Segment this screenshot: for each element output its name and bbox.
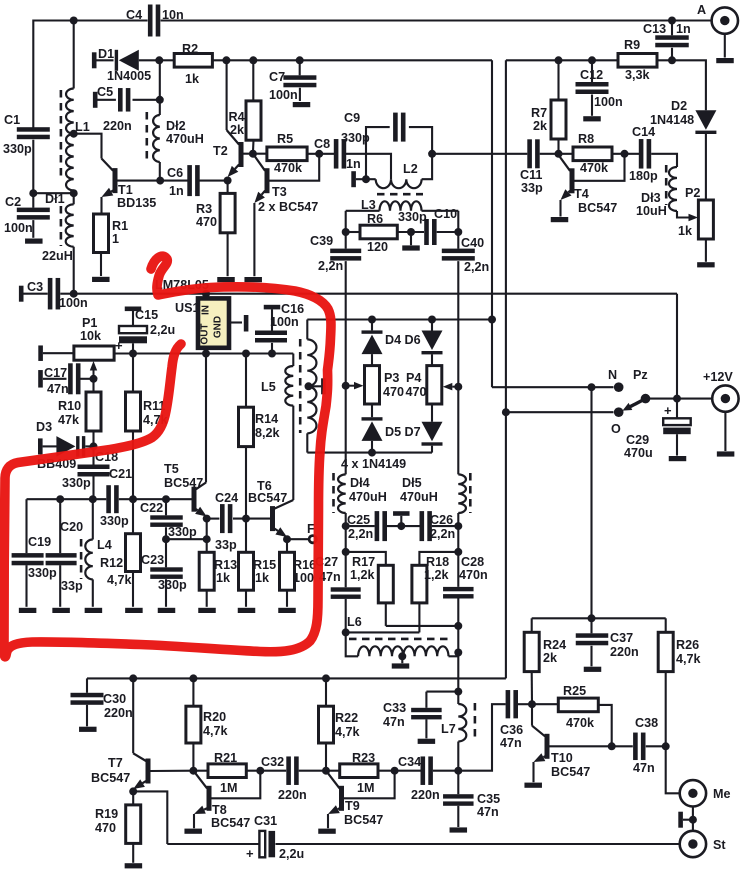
transistor T7 BC547 [91,753,151,789]
svg-text:330p: 330p [62,476,91,490]
junction bottom rail / R20 [189,674,197,682]
resistor R22 [319,678,361,770]
svg-text:C13: C13 [643,22,666,36]
svg-text:470k: 470k [580,161,609,175]
inductor L7 on rail B [441,692,466,771]
svg-text:33p: 33p [215,538,237,552]
inductor Dl5 470uH on rail B [400,474,466,513]
transistor T6 BC547 [248,479,293,537]
capacitor C9 branch [341,111,432,179]
junction R2 wire / C7 [296,56,304,64]
svg-text:100n: 100n [594,95,623,109]
svg-text:R1: R1 [112,219,128,233]
svg-text:47n: 47n [47,382,69,396]
svg-text:33p: 33p [61,579,83,593]
svg-text:L2: L2 [403,162,418,176]
svg-text:C23: C23 [141,553,164,567]
svg-text:2,2u: 2,2u [279,847,304,861]
capacitor C30 [71,678,133,726]
svg-text:C36: C36 [500,723,523,737]
junction C22/C23/R13 wire [162,535,211,543]
svg-text:C26: C26 [430,513,453,527]
capacitor C18 [62,446,118,499]
svg-text:C12: C12 [580,68,603,82]
svg-text:1N4148: 1N4148 [650,113,694,127]
wire y60 right segment from corner x506 to D2 corner [506,59,672,61]
ground below C29 [669,456,687,461]
ground below T10 [524,783,542,788]
svg-text:C32: C32 [261,755,284,769]
svg-text:O: O [611,422,621,436]
core dash line Dl1 [60,206,63,246]
connector jack St [680,831,727,857]
junction Dl1 bottom / supply wire [70,290,78,298]
core dash L7 [474,703,477,741]
core dash line L1 [60,90,63,178]
svg-text:BC547: BC547 [164,476,203,490]
wiper arrow into P1 [90,361,98,383]
junction C1/C2 node [29,189,77,197]
switch contact O [611,407,624,436]
junction ring bottom / D5 [368,449,376,457]
svg-text:4 x 1N4149: 4 x 1N4149 [341,457,406,471]
svg-text:Pz: Pz [633,368,648,382]
svg-text:D4: D4 [385,333,401,347]
svg-text:L3: L3 [361,198,376,212]
svg-text:120: 120 [367,240,388,254]
junction rail B / C26 [454,522,462,530]
resistor R14 [239,350,281,519]
ground below C12 [583,116,601,121]
junction rail B / C34 / audio takeoff / C35 [454,767,462,775]
ground below R3 [217,277,235,282]
bottom wire [167,843,679,845]
resistor R16 [280,539,317,607]
resistor R26 4,7k [658,618,701,745]
svg-text:C8: C8 [314,137,330,151]
svg-text:100n: 100n [269,88,298,102]
svg-text:+: + [664,403,672,418]
bottom supply rail [87,677,506,679]
ground below T9 [318,829,336,834]
wiper arrow into P3 [342,382,364,390]
junction R2 wire / R4 [249,56,257,64]
junction bus/C18/L4 [89,495,97,503]
diode D6 [405,320,443,366]
diode ring top wire [307,318,492,320]
connector jack Me [680,780,731,806]
inductor Dl4 470uH on rail A [338,474,387,513]
svg-text:1n: 1n [169,184,184,198]
transistor T10 BC547 [532,704,590,779]
svg-text:Me: Me [713,787,731,801]
inductor Dl1 22uH [42,192,74,294]
svg-text:2,2u: 2,2u [150,323,175,337]
capacitor C38 [612,716,666,775]
svg-text:P4: P4 [406,371,421,385]
capacitor C2 [4,195,50,238]
terminal bar left of P1 [38,345,74,361]
svg-text:47n: 47n [477,805,499,819]
wire L6 top link [346,631,420,633]
rail x492 from y60 down to N wire [491,60,493,387]
svg-text:470: 470 [196,215,217,229]
svg-text:470u: 470u [624,446,653,460]
svg-text:R23: R23 [352,751,375,765]
wire D2 branch from y60 [672,60,706,110]
rail x506 from y60 down to bottom rail [505,60,507,678]
terminal bar left of C5 [93,92,116,108]
resistor R12 [100,499,141,607]
inductor Dl3 10uH [636,167,683,218]
ground below R12 [125,608,142,613]
wire supply riser from US1 wire [676,294,678,399]
inductor L3 [346,198,459,212]
svg-text:1,2k: 1,2k [424,568,450,582]
svg-text:C15: C15 [135,308,158,322]
svg-text:4,7k: 4,7k [676,652,702,666]
resistor R11 [126,354,169,500]
svg-text:R19: R19 [95,807,118,821]
svg-text:470: 470 [95,821,116,835]
svg-text:47n: 47n [633,761,655,775]
svg-text:3,3k: 3,3k [625,68,651,82]
capacitor C17 [38,363,93,396]
wire T4 emitter to ground [559,200,561,217]
varicap diode D3 BB409 [36,420,94,471]
resistor R21 1M [193,751,286,795]
resistor R5 [267,132,307,175]
capacitor C14 [629,125,677,183]
svg-text:2k: 2k [230,123,245,137]
capacitor C27 on rail A [315,555,361,632]
core dash Dl4 [332,473,335,513]
svg-text:470uH: 470uH [400,490,438,504]
inductor L1 with tap [66,21,90,205]
wire T2 collector up to R2 junction [226,60,228,130]
wire emitter to bottom wire corner [133,791,167,844]
svg-text:1k: 1k [255,571,270,585]
red marker annotation loop [4,256,331,657]
svg-text:R5: R5 [277,132,293,146]
capacitor C21 in bus [100,467,132,528]
wire T10 emitter to ground [532,762,534,782]
regulated rail y353 [114,352,293,354]
svg-text:C11: C11 [520,168,542,182]
svg-text:D1: D1 [98,47,114,61]
wire y60 D1 junction to R2 [159,59,174,61]
capacitor C24 [207,491,270,552]
svg-text:OUT: OUT [200,323,211,344]
svg-text:47n: 47n [383,715,405,729]
wire emitter node down to R13 junction [206,519,208,540]
voltage regulator US1 LM78L05 [155,278,229,348]
ground below P2 [697,262,715,267]
wire N feed [492,386,614,388]
svg-text:2,2n: 2,2n [464,260,489,274]
US1 GND stub and terminal [229,315,248,332]
svg-text:D7: D7 [405,425,421,439]
svg-text:R15: R15 [253,558,276,572]
capacitor C39 on rail A [310,234,361,386]
svg-text:D3: D3 [36,420,52,434]
svg-text:1n: 1n [676,22,691,36]
terminal bar left of D3 [38,438,57,454]
wire T8 base to riser [212,771,261,799]
resistor R23 1M [326,751,421,795]
svg-text:2 x BC547: 2 x BC547 [258,200,318,214]
svg-text:C40: C40 [461,236,484,250]
svg-text:C21: C21 [109,467,132,481]
wire T7 collector [132,678,134,753]
wire R17/R18 bottoms to rail B [386,625,459,627]
junction C15/R11 on rail [129,350,137,358]
svg-text:R10: R10 [58,399,81,413]
svg-text:330p: 330p [158,578,187,592]
inductor L6 with center tap [346,615,459,656]
svg-text:BC547: BC547 [551,765,590,779]
ground below T4 [551,217,569,222]
wire T3 base to R5/C8 node [270,154,320,181]
svg-text:C31: C31 [254,814,277,828]
svg-text:BC547: BC547 [211,816,250,830]
svg-text:100n: 100n [59,296,88,310]
junction rail B / L6 right [454,649,462,657]
svg-text:N: N [608,368,617,382]
wire y60 R2 to corner x492 [212,59,492,61]
svg-text:220n: 220n [278,788,307,802]
wire T4 base to R8 right junction [575,154,625,181]
capacitor C11 on RF wire [520,139,543,195]
transistor T3 BC547 [253,154,318,214]
svg-text:L7: L7 [441,722,456,736]
svg-text:BC547: BC547 [578,201,617,215]
junction rail B / R17R18 bottom wire [454,622,462,630]
transistor T1 BD135 [102,159,157,211]
svg-text:C25: C25 [347,513,370,527]
junction R21/C32/T8 base riser [256,767,264,775]
capacitor C35 [443,771,500,827]
svg-text:R6: R6 [367,212,383,226]
svg-text:T8: T8 [212,803,227,817]
wire T7 base to R20 node [151,770,194,772]
svg-text:L6: L6 [347,615,362,629]
svg-text:C16: C16 [281,302,304,316]
junction ring top / rail x492 [488,316,496,324]
svg-text:C28: C28 [461,555,484,569]
potentiometer P2 1k [678,186,713,262]
svg-text:47n: 47n [500,736,522,750]
junction bottom rail / T7 collector [129,674,137,682]
electrolytic C29 470u [624,399,691,460]
transistor T8 BC547 [193,771,250,830]
ground below C19 [19,608,36,613]
junction bus/R11/R12 [129,495,137,503]
ground below R15 [238,608,256,613]
svg-text:33p: 33p [521,181,543,195]
svg-text:C7: C7 [269,70,285,84]
core dash L6 [349,638,448,641]
svg-text:BD135: BD135 [117,196,156,210]
svg-text:330p: 330p [168,525,197,539]
wire T8 emitter to ground [193,814,195,828]
junction ring top / D6 [428,316,436,324]
svg-text:C30: C30 [103,692,126,706]
US1 OUT pin to rail [202,348,210,358]
svg-text:D5: D5 [385,425,401,439]
wire T5 collector to regulated rail [205,354,207,483]
rail B through bottom rail crossing to L7 [457,626,459,692]
svg-text:10n: 10n [162,8,184,22]
resistor R8 [573,132,639,175]
svg-text:470uH: 470uH [349,490,387,504]
svg-text:T2: T2 [213,144,228,158]
ground below C37 [584,667,602,672]
svg-text:R16: R16 [293,558,316,572]
capacitor C28 on rail B [443,555,488,626]
inductor L4 [85,499,111,607]
potentiometer P4 470 [406,366,442,404]
audio wire to C36 [458,704,505,771]
oscillator bus wire [27,498,192,500]
resistor R25 470k [532,684,612,746]
junction US1 IN pin [202,290,210,299]
resistor R4 [229,60,262,153]
capacitor C13 [643,21,691,61]
svg-text:1,2k: 1,2k [350,568,376,582]
svg-text:+12V: +12V [703,370,733,384]
svg-text:10uH: 10uH [636,204,667,218]
core dash Dl2 [146,112,149,160]
capacitor C34 [398,755,458,802]
resistor R18 1,2k [412,552,458,633]
capacitor C12 [576,60,623,116]
ground below jack A [716,58,734,63]
junction rail B / R18 wire [454,548,462,556]
svg-text:C38: C38 [635,716,658,730]
wire T9 base to riser [344,771,395,799]
svg-text:Dł2: Dł2 [166,119,186,133]
svg-text:R2: R2 [182,42,198,56]
wire T1 collector to L1 tap [74,134,102,159]
svg-text:R3: R3 [196,202,212,216]
junction D3/R10/C18 [90,442,98,450]
svg-text:470uH: 470uH [166,132,204,146]
svg-text:470: 470 [383,385,404,399]
link Me to St with terminal [678,807,697,831]
junction rail A / C25 [342,522,350,530]
junction R20/R21/T7 base/T8 collector [189,767,197,775]
svg-text:R13: R13 [214,558,237,572]
svg-text:C6: C6 [167,166,183,180]
label 4 x 1N4149 [341,457,406,471]
ground below C30 [79,727,97,732]
svg-text:4,7k: 4,7k [335,725,361,739]
rail A from wiper to L6 [345,386,347,588]
svg-text:220n: 220n [610,645,639,659]
svg-text:+: + [115,338,123,353]
capacitor C32 [261,755,326,802]
svg-text:470k: 470k [274,161,303,175]
capacitor C40 on rail B [442,236,489,387]
ground below R6/C10 tap [402,245,420,250]
junction rail A / L6 left [342,628,350,636]
capacitor C1 [3,113,50,208]
svg-text:1N4005: 1N4005 [107,69,151,83]
junction C24/R14/R15/T6 base [242,515,250,523]
rail R24 feed x591 [590,387,592,618]
junction bottom rail / R22 [322,674,330,682]
capacitor C6 [160,165,227,198]
ground below T3 [244,277,262,282]
svg-text:1k: 1k [678,224,693,238]
resistor R6 [360,212,397,254]
resistor R1 [94,214,129,276]
svg-text:100n: 100n [270,315,299,329]
connector jack +12V [703,370,739,451]
ground below C23 [158,608,176,613]
svg-text:BC547: BC547 [248,491,287,505]
wire O feed [506,411,614,413]
capacitor C26 [420,511,459,541]
capacitor C3 [19,278,88,310]
core dash L4 [80,539,83,579]
junction supply / C37 [588,614,596,622]
svg-text:1M: 1M [220,781,238,795]
wire T10 base to R25/C38 node [550,742,616,750]
transistor T9 BC547 [326,771,383,827]
junction rail A / R6 wire [342,228,350,236]
junction rail B / C10 wire [454,228,462,236]
svg-text:T3: T3 [272,185,287,199]
svg-text:C3: C3 [27,280,43,294]
svg-text:P2: P2 [685,186,700,200]
inductor L5 primary [261,354,293,501]
svg-text:D2: D2 [671,99,687,113]
wire C33 branch [426,688,462,696]
diode ring bottom wire [307,452,432,454]
wire T3 emitter to ground [253,203,255,276]
svg-text:C37: C37 [610,631,633,645]
capacitor C5 [97,85,164,133]
svg-text:10k: 10k [80,329,102,343]
svg-text:US1: US1 [175,301,200,315]
svg-text:1n: 1n [346,157,361,171]
ground below C33 [418,739,436,744]
svg-text:BC547: BC547 [91,771,130,785]
resistor R15 [239,519,277,607]
svg-text:Dł3: Dł3 [641,191,661,205]
resistor R3 [196,181,235,277]
capacitor C33 [383,692,442,739]
resistor R2 [174,42,212,86]
secondary center tap terminal [305,378,326,394]
electrolytic C15 2.2u [115,307,175,354]
resistor R13 [199,539,237,607]
capacitor C37 [576,618,639,666]
capacitor C25 [346,511,420,541]
svg-text:GND: GND [213,316,224,338]
resistor R20 [186,678,229,770]
ground below R13 [198,608,216,613]
svg-text:BC547: BC547 [344,813,383,827]
junction R8 right / T4 base wire / C14 [621,150,629,158]
terminal bar left of D1 [92,52,114,68]
core dash Dl3 [665,165,668,205]
junction top wire / C13 [668,17,676,25]
ground below L4 [85,608,103,613]
transformer secondary winding [307,320,316,453]
